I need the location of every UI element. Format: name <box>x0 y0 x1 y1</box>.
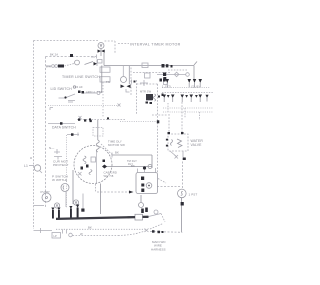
svg-text:DATA SWITCH: DATA SWITCH <box>52 126 76 130</box>
svg-text:LID SWITCH: LID SWITCH <box>51 87 73 91</box>
svg-text:ARN LL 7 AB: ARN LL 7 AB <box>86 90 102 94</box>
svg-text:MTR SW: MTR SW <box>140 90 152 94</box>
svg-text:MOTOR SW: MOTOR SW <box>108 143 125 147</box>
svg-text:BK: BK <box>88 225 92 229</box>
svg-text:(2) (6): (2) (6) <box>191 85 200 89</box>
svg-text:WH: WH <box>46 65 51 69</box>
svg-text:VALVE: VALVE <box>191 143 203 147</box>
svg-text:24 AF: 24 AF <box>75 85 83 89</box>
svg-text:WH 7/8: WH 7/8 <box>104 174 114 178</box>
svg-text:1 PST: 1 PST <box>189 193 198 197</box>
svg-text:L1: L1 <box>24 164 28 168</box>
svg-text:1.1 (7): 1.1 (7) <box>162 85 171 89</box>
svg-text:BK: BK <box>131 164 135 168</box>
svg-text:TIMER LINE SWITCH: TIMER LINE SWITCH <box>62 75 100 79</box>
svg-text:N—: N— <box>49 146 54 150</box>
svg-text:W WHTLE: W WHTLE <box>52 178 67 182</box>
svg-text:BK: BK <box>115 151 119 155</box>
svg-text:BK 2A: BK 2A <box>50 53 58 57</box>
svg-text:LP: LP <box>54 234 58 238</box>
svg-text:PROTECT: PROTECT <box>53 163 68 167</box>
svg-text:TN: TN <box>106 80 110 84</box>
svg-text:W: W <box>80 232 83 236</box>
svg-text:INTERVAL TIMER MOTOR: INTERVAL TIMER MOTOR <box>130 42 181 46</box>
svg-text:PUMP: PUMP <box>41 190 50 194</box>
svg-text:HARNESS: HARNESS <box>151 247 166 251</box>
